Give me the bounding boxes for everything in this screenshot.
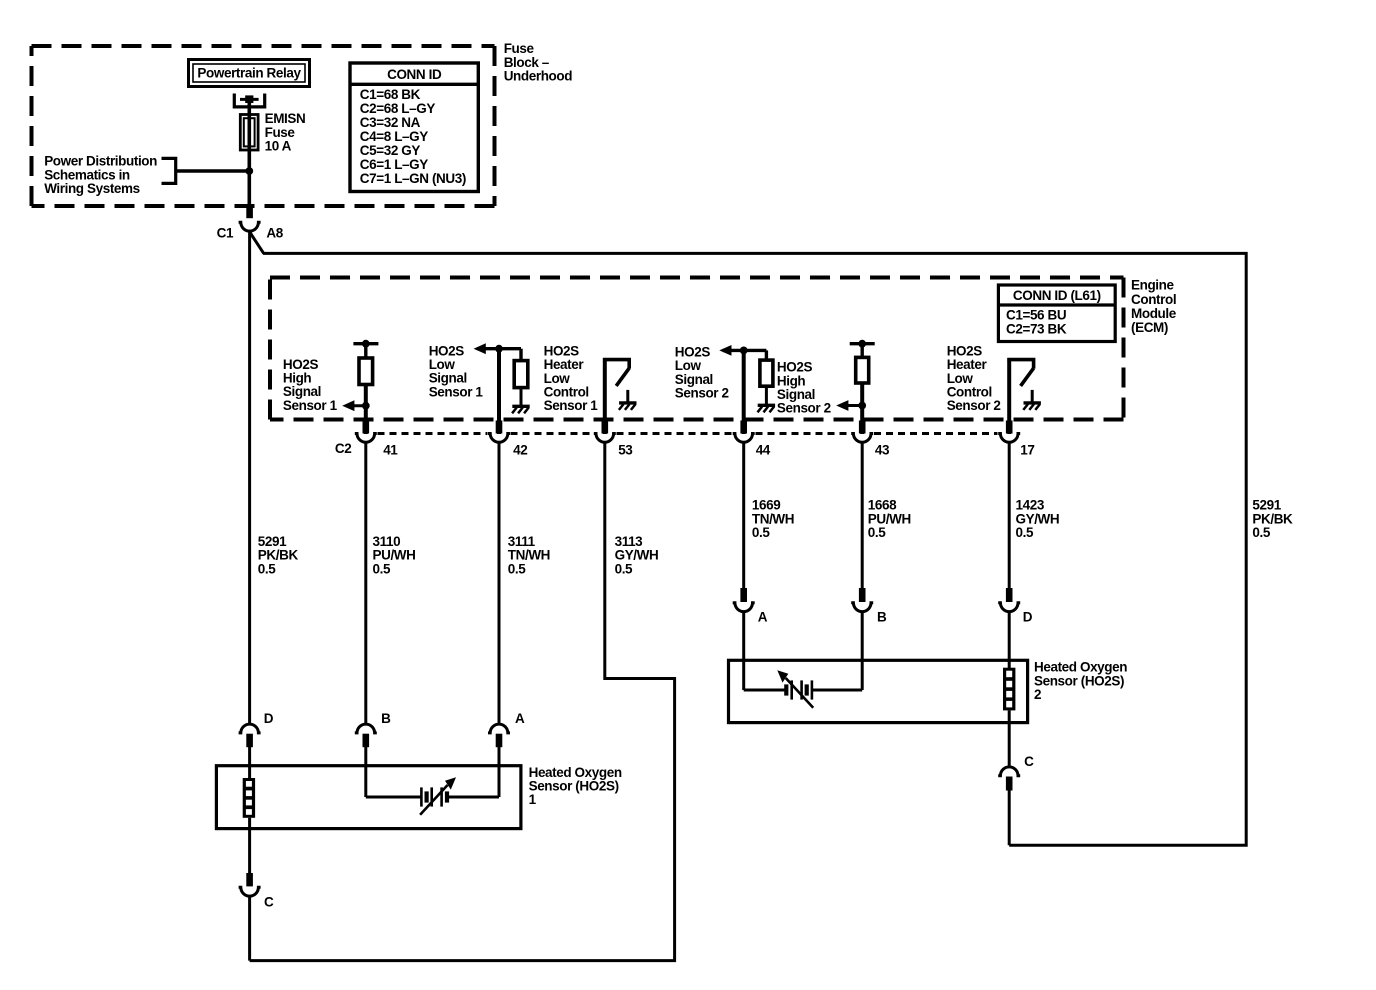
pin number 41 (383, 443, 398, 458)
terminal letter D (HO2S 2) (1023, 610, 1033, 625)
Power Distribution reference label (44, 154, 157, 196)
svg-text:Sensor (HO2S): Sensor (HO2S) (1034, 673, 1124, 688)
svg-text:1: 1 (529, 792, 537, 807)
connector HO2S 2 terminal C (998, 767, 1020, 791)
wire HO2S2 C down to 5291 run (1008, 791, 1011, 846)
ground (ECM internal, low signal 1) (512, 388, 530, 414)
connector HO2S 2 terminal B (851, 588, 873, 612)
svg-text:Sensor (HO2S): Sensor (HO2S) (529, 779, 619, 794)
svg-text:Sensor 1: Sensor 1 (429, 384, 484, 399)
svg-text:0.5: 0.5 (373, 561, 391, 576)
svg-text:Underhood: Underhood (504, 69, 573, 84)
svg-text:43: 43 (875, 443, 890, 458)
svg-text:0.5: 0.5 (868, 525, 886, 540)
svg-text:C5=32 GY: C5=32 GY (360, 143, 421, 158)
ECM internal: HO2S High Signal Sensor 1 termination (pin 41) (353, 340, 378, 358)
wire HO2S1 B pigtail (364, 747, 367, 797)
wire HO2S2 internal horizontal (A side) (744, 689, 785, 692)
wire splice branch from connector A8 to top run (250, 233, 264, 254)
connector C2 pin 41 (355, 421, 377, 443)
wire from Powertrain Relay contact through fuse to connector C1 (248, 97, 252, 207)
svg-text:0.5: 0.5 (508, 561, 526, 576)
junction S (fuse output splice) (245, 167, 253, 175)
svg-text:C2=68 L–GY: C2=68 L–GY (360, 101, 436, 116)
HO2S Low Signal Sensor 2 label (675, 345, 729, 401)
resistor (HO2S low signal 2 pull) (760, 360, 773, 386)
ECM internal: HO2S Low Signal Sensor 2 termination (pin 44) (719, 345, 766, 360)
CONN ID row C1=56 BU (1006, 307, 1066, 322)
CONN ID (L61) table (998, 285, 1115, 342)
HO2S Low Signal Sensor 1 label (429, 343, 484, 399)
wire 3113 GY/WH route: pin 53 down, jog right, down, bottom run to HO2S1 C (250, 443, 675, 960)
svg-text:A: A (758, 610, 768, 625)
connector HO2S 2 terminal A (733, 588, 755, 612)
HO2S Heater Low Control Sensor 2 label (947, 343, 1001, 413)
svg-text:D: D (264, 711, 274, 726)
svg-text:CONN ID: CONN ID (387, 67, 442, 82)
wire HO2S2 D pigtail (1008, 612, 1011, 668)
svg-text:C1=68 BK: C1=68 BK (360, 87, 421, 102)
CONN ID row C5 (360, 143, 421, 158)
wire pin 41 internal (364, 385, 368, 435)
svg-text:C1: C1 (217, 226, 234, 241)
svg-text:Engine: Engine (1131, 278, 1174, 293)
wire HO2S2 A pigtail (742, 612, 745, 661)
wire HO2S1 C down to bottom run (248, 897, 251, 961)
connector HO2S 2 terminal D (998, 588, 1020, 612)
Engine Control Module (ECM) label (1131, 278, 1177, 336)
wire label 1668 PU/WH 0.5 (868, 498, 911, 540)
ground (ECM internal, heater control 2) (1023, 390, 1041, 410)
connector C2 pin 43 (851, 421, 873, 443)
wire HO2S1 internal horizontal (B side) (366, 796, 421, 799)
signal arrow HO2S High Signal Sensor 2 (836, 400, 862, 411)
svg-text:53: 53 (618, 443, 633, 458)
wire 5291 PK/BK left drop to HO2S 1 terminal D (248, 231, 251, 723)
CONN ID row C4 (360, 129, 428, 144)
svg-text:CONN ID (L61): CONN ID (L61) (1013, 288, 1101, 303)
heater element HO2S 2 (1003, 668, 1015, 711)
pin number 42 (513, 443, 527, 458)
resistor (HO2S high signal 1 pull) (359, 358, 373, 385)
HO2S High Signal Sensor 2 label (777, 360, 831, 416)
wire 1668 PU/WH (pin 43 to HO2S2 B) (861, 443, 864, 588)
connector row C2 dotted harness line (378, 432, 998, 435)
svg-text:0.5: 0.5 (752, 525, 770, 540)
wire label 3113 GY/WH 0.5 (615, 534, 659, 576)
svg-text:Sensor 1: Sensor 1 (283, 398, 338, 413)
svg-text:10 A: 10 A (265, 139, 292, 154)
ECM internal: HO2S High Signal Sensor 2 termination (pin 43) (850, 340, 875, 358)
svg-text:Sensor 1: Sensor 1 (544, 398, 599, 413)
HO2S Heater Low Control Sensor 1 label (544, 343, 599, 413)
CONN ID row C2=73 BK (1006, 322, 1067, 337)
node C1 label (217, 226, 234, 241)
ECM internal: heater low control driver sensor 2 (pin 17) (1007, 358, 1033, 434)
resistor (HO2S high signal 2 pull) (856, 357, 869, 383)
terminal letter B (HO2S 2) (877, 610, 887, 625)
svg-text:D: D (1023, 610, 1033, 625)
wire label 1423 GY/WH 0.5 (1016, 498, 1060, 540)
svg-text:Sensor 2: Sensor 2 (777, 401, 831, 416)
signal arrow HO2S High Signal Sensor 1 (342, 400, 366, 411)
CONN ID row C6 (360, 157, 428, 172)
node C2 label (ECM connector) (335, 441, 351, 456)
wire HO2S1 internal horizontal (A side) (448, 796, 499, 799)
svg-text:C7=1 L–GN (NU3): C7=1 L–GN (NU3) (360, 171, 466, 186)
ground (ECM internal, heater control 1) (619, 390, 637, 410)
ECM internal: heater low control driver sensor 1 (pin 53) (603, 358, 629, 434)
battery: HO2S 1 sensing element (variable voltage) (420, 777, 456, 815)
terminal letter D (HO2S 1) (264, 711, 274, 726)
svg-text:Powertrain Relay: Powertrain Relay (197, 66, 301, 81)
wire 1669 TN/WH (pin 44 to HO2S2 A) (742, 443, 745, 588)
svg-text:A: A (515, 711, 525, 726)
wire HO2S2 internal horizontal (B side) (812, 689, 862, 692)
CONN ID row C7 (360, 171, 466, 186)
battery: HO2S 2 sensing element (variable voltage) (777, 670, 813, 708)
CONN ID table (Fuse Block) (350, 63, 478, 192)
Fuse Block - Underhood label (504, 41, 573, 83)
svg-text:41: 41 (383, 443, 398, 458)
wire label 3110 PU/WH 0.5 (373, 534, 416, 576)
svg-text:C2: C2 (335, 441, 351, 456)
wire pin 43 internal (860, 383, 864, 434)
connector HO2S 1 terminal D (239, 724, 261, 747)
svg-text:42: 42 (513, 443, 527, 458)
svg-text:C3=32 NA: C3=32 NA (360, 115, 421, 130)
pin number 43 (875, 443, 890, 458)
wire HO2S1 A pigtail (498, 747, 501, 797)
connector C2 pin 53 (594, 421, 616, 443)
terminal letter A (HO2S 1) (515, 711, 525, 726)
connector HO2S 1 terminal B (355, 724, 377, 747)
svg-text:B: B (381, 711, 391, 726)
svg-text:Sensor 2: Sensor 2 (675, 386, 729, 401)
svg-text:Wiring Systems: Wiring Systems (44, 181, 140, 196)
ground (ECM internal, low signal 2) (758, 386, 776, 412)
svg-text:0.5: 0.5 (258, 561, 276, 576)
svg-text:Sensor 2: Sensor 2 (947, 398, 1001, 413)
wire HO2S2 internal B leg (861, 660, 864, 690)
terminal letter B (HO2S 1) (381, 711, 391, 726)
wire label 1669 TN/WH 0.5 (752, 498, 794, 540)
ECM internal: HO2S Low Signal Sensor 1 termination (pin 42) (474, 343, 521, 360)
svg-text:C6=1 L–GY: C6=1 L–GY (360, 157, 428, 172)
pin number 44 (756, 443, 771, 458)
wire 3110 PU/WH (pin 41 to HO2S1 B) (364, 443, 367, 723)
svg-text:C: C (1024, 754, 1034, 769)
bracket to Power Distribution reference (162, 158, 176, 183)
wire HO2S2 B pigtail (861, 612, 864, 661)
junction on pin 41 wire (362, 402, 370, 410)
junction on pin 43 wire (858, 402, 866, 410)
svg-text:C: C (264, 895, 274, 910)
svg-text:A8: A8 (266, 226, 283, 241)
svg-text:C2=73 BK: C2=73 BK (1006, 322, 1067, 337)
wire HO2S1 D pigtail (248, 747, 251, 779)
connector C2 pin 42 (488, 421, 510, 443)
connector C2 pin 44 (733, 421, 755, 443)
wire HO2S2 internal A leg (742, 660, 745, 690)
wire pin 44 internal (742, 350, 746, 434)
Heated Oxygen Sensor (HO2S) 1 label (529, 765, 622, 807)
svg-text:44: 44 (756, 443, 771, 458)
wire HO2S1 heater to C (248, 818, 251, 874)
resistor (HO2S low signal 1 pull) (514, 361, 528, 388)
fuse EMISN label (265, 111, 306, 153)
svg-text:C1=56 BU: C1=56 BU (1006, 307, 1066, 322)
wire 1423 GY/WH (pin 17 to HO2S2 D) (1008, 443, 1011, 588)
terminal letter C (HO2S 1) (264, 895, 274, 910)
wire label 5291 PK/BK 0.5 (left) (258, 534, 299, 576)
heater element HO2S 1 (243, 778, 255, 818)
svg-text:Control: Control (1131, 292, 1176, 307)
relay contact symbol (Powertrain Relay output) (234, 94, 264, 107)
connector C1 pin A8 (Fuse Block to harness) (239, 206, 261, 231)
CONN ID row C1 (360, 87, 421, 102)
CONN ID row C3 (360, 115, 421, 130)
junction on pin 44 wire (740, 347, 748, 355)
HO2S High Signal Sensor 1 label (283, 357, 338, 413)
pin number 53 (618, 443, 633, 458)
Heated Oxygen Sensor (HO2S) 1 box (216, 766, 521, 829)
connector HO2S 1 terminal C (239, 873, 261, 896)
node A8 label (266, 226, 283, 241)
svg-text:2: 2 (1034, 687, 1041, 702)
svg-text:17: 17 (1020, 443, 1034, 458)
pin number 17 (1020, 443, 1034, 458)
wire label 3111 TN/WH 0.5 (508, 534, 550, 576)
junction on pin 42 wire (495, 345, 503, 353)
svg-text:0.5: 0.5 (1016, 525, 1034, 540)
svg-text:B: B (877, 610, 887, 625)
wire 3111 TN/WH (pin 42 to HO2S1 A) (498, 443, 501, 723)
CONN ID row C2 (360, 101, 436, 116)
wire label 5291 PK/BK 0.5 (right) (1252, 498, 1293, 540)
Heated Oxygen Sensor (HO2S) 2 box (729, 660, 1028, 722)
relay K: Powertrain Relay name box (189, 60, 310, 87)
wire pin 42 internal (497, 349, 501, 434)
Fuse Block - Underhood dashed enclosure (32, 46, 495, 206)
terminal letter C (HO2S 2) (1024, 754, 1034, 769)
connector C2 pin 17 (998, 421, 1020, 443)
svg-text:(ECM): (ECM) (1131, 320, 1168, 335)
svg-text:0.5: 0.5 (1252, 525, 1270, 540)
svg-text:C4=8 L–GY: C4=8 L–GY (360, 129, 428, 144)
fuse EMISN 10 A symbol (240, 115, 258, 151)
connector HO2S 1 terminal A (488, 724, 510, 747)
wire 5291 PK/BK top run, right vertical and lower-right horizontal to HO2S 2 terminal C (263, 253, 1246, 845)
Engine Control Module dashed enclosure (270, 278, 1124, 420)
Heated Oxygen Sensor (HO2S) 2 label (1034, 660, 1127, 702)
svg-text:Module: Module (1131, 306, 1177, 321)
svg-text:0.5: 0.5 (615, 561, 633, 576)
terminal letter A (HO2S 2) (758, 610, 768, 625)
wire HO2S2 heater to C (1008, 710, 1011, 766)
wire tap to Power Distribution (176, 169, 250, 172)
